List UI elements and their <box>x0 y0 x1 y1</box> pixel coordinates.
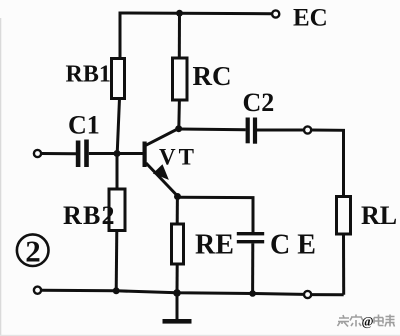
capacitor CE <box>237 232 264 235</box>
wire top rail EC <box>120 13 272 58</box>
wire emitter to CE branch <box>178 197 254 232</box>
wire collector to C2 <box>179 128 246 132</box>
svg-text:@: @ <box>362 314 374 329</box>
wire RB1 bottom to base node <box>117 99 119 154</box>
node CE bottom <box>249 290 256 297</box>
terminal EC open circle <box>272 10 279 17</box>
wire bottom rail <box>41 290 304 294</box>
wire RC top <box>178 13 181 58</box>
transistor VT base bar <box>143 142 147 168</box>
svg-text:CE: CE <box>270 230 323 261</box>
resistor RC <box>173 58 188 100</box>
svg-text:RE: RE <box>195 230 234 261</box>
svg-text:VT: VT <box>159 145 197 170</box>
node RB2 bottom <box>113 287 120 294</box>
svg-text:RL: RL <box>361 201 397 230</box>
wire emitter to RE <box>176 197 179 225</box>
resistor RB1 <box>112 59 125 99</box>
watermark 头条@电巢 <box>338 315 395 327</box>
svg-text:EC: EC <box>293 5 328 32</box>
svg-text:2: 2 <box>25 234 41 269</box>
transistor VT collector stroke <box>146 129 179 146</box>
transistor VT emitter stroke <box>146 163 178 196</box>
scan edge bottom <box>0 335 400 336</box>
svg-text:RB1: RB1 <box>66 62 111 88</box>
resistor RB2 <box>109 189 125 231</box>
node ground junction <box>173 289 181 297</box>
wire RC bottom to collector <box>177 100 181 129</box>
node collector <box>175 125 182 132</box>
node emitter <box>174 193 181 200</box>
ground <box>176 293 179 320</box>
wire C2 to output terminal <box>257 129 304 132</box>
resistor RE <box>172 224 184 264</box>
node top rail / RC junction <box>176 10 183 17</box>
svg-text:C1: C1 <box>68 111 100 140</box>
wire RE bottom <box>176 264 179 293</box>
transistor VT emitter arrow <box>154 166 167 179</box>
terminal input top <box>34 150 41 157</box>
wire output bottom to RL <box>311 293 343 296</box>
scan edge left <box>0 18 1 336</box>
terminal input bottom <box>34 287 41 294</box>
resistor RL <box>337 197 351 235</box>
capacitor C1 <box>76 141 81 168</box>
wire input to C1 <box>41 152 76 155</box>
wire CE bottom <box>251 243 254 293</box>
terminal output top open circle <box>304 126 311 133</box>
terminal output bottom open circle <box>304 291 311 298</box>
svg-text:RB2: RB2 <box>63 201 116 230</box>
svg-text:C2: C2 <box>243 88 275 117</box>
wire RL bottom <box>342 234 345 295</box>
svg-text:RC: RC <box>193 61 232 91</box>
circled number 2 <box>17 234 49 266</box>
wire RB2 branch <box>116 154 119 190</box>
capacitor C2 <box>246 118 250 144</box>
node base junction <box>114 150 121 157</box>
wire C1 to base <box>89 152 143 155</box>
wire terminal to RL top <box>311 130 343 197</box>
wire RB2 bottom <box>115 231 119 291</box>
